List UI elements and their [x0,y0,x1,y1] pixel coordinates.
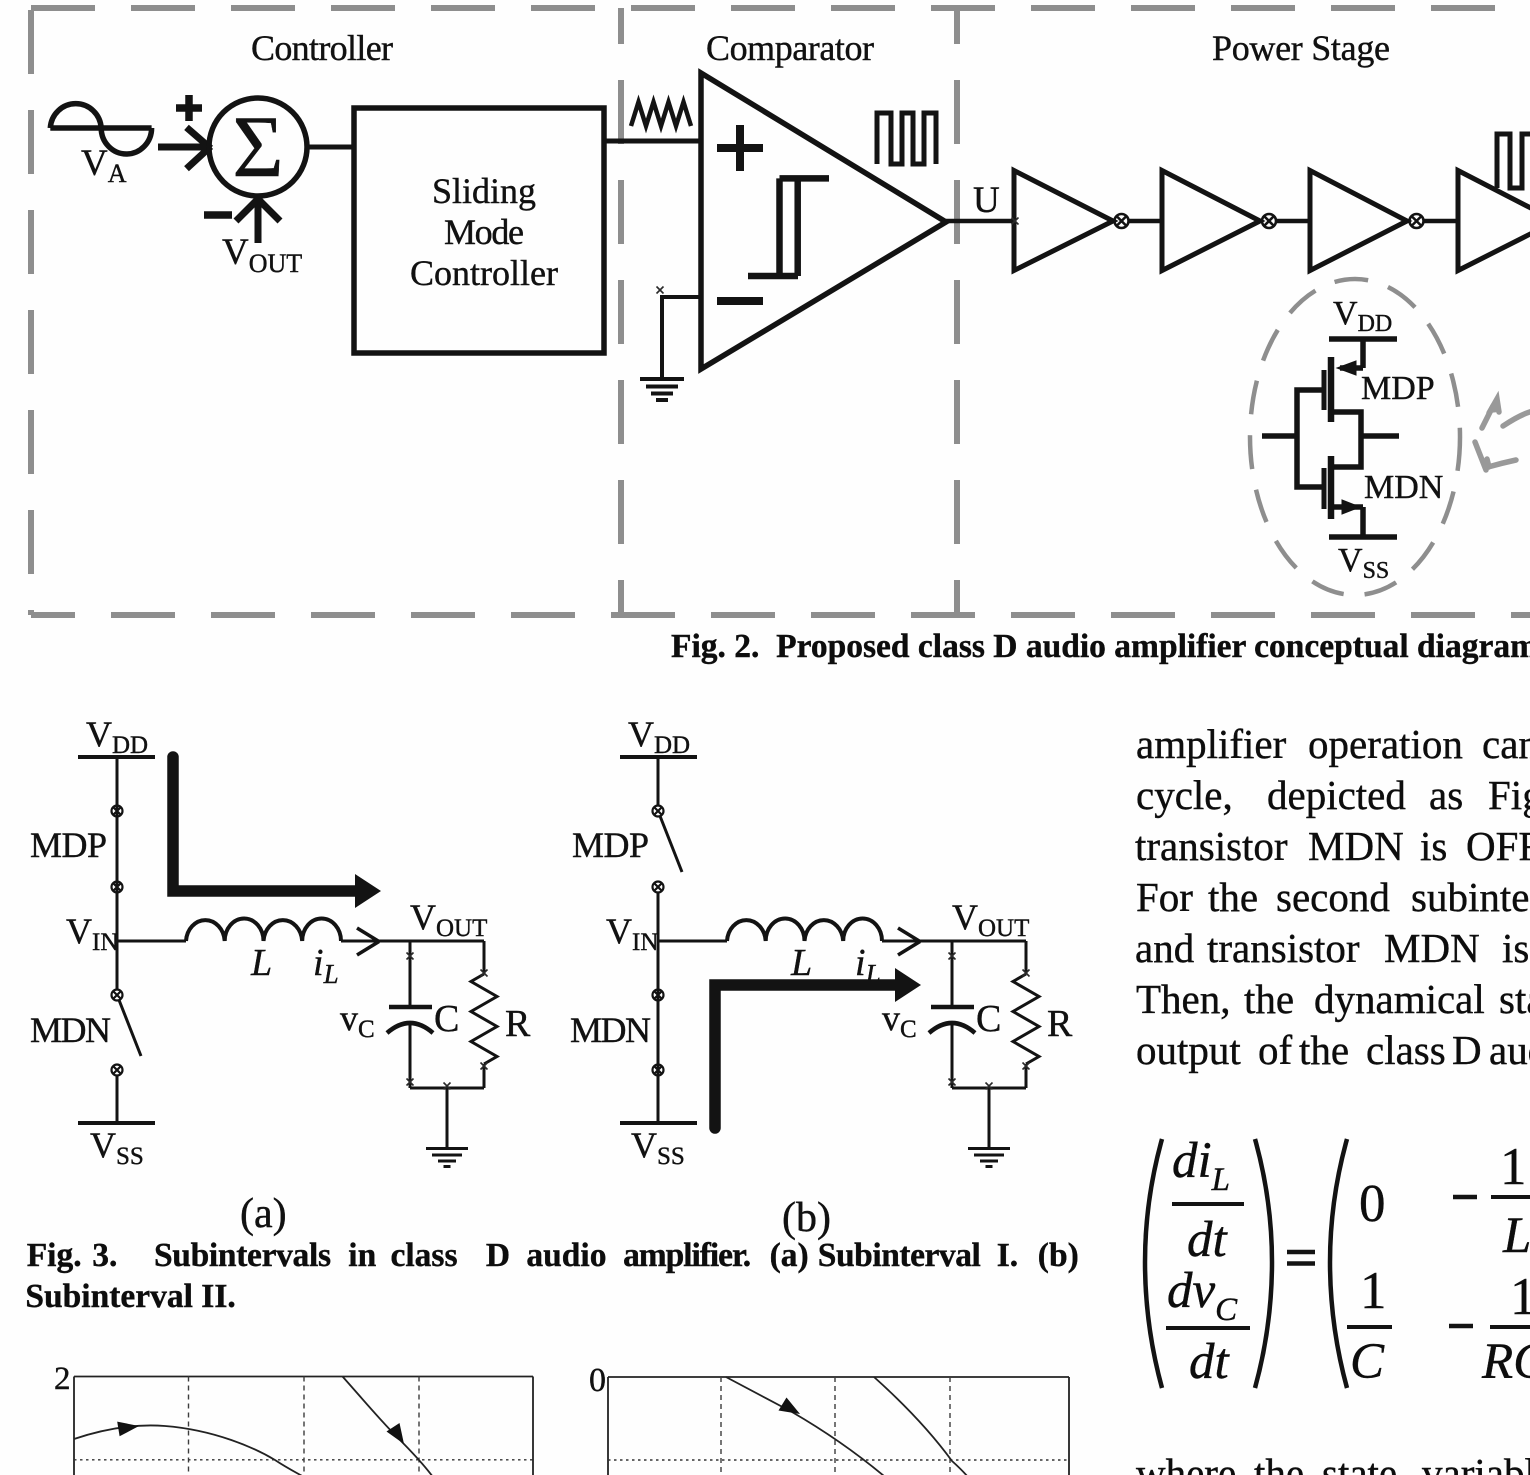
comparator U2 triangle [701,73,946,369]
right plot frame [608,1377,1069,1475]
fraction bar 3 [1347,1325,1392,1329]
svg-text:MDN: MDN [1364,469,1443,506]
square wave icon at comparator output [877,113,936,164]
sawtooth waveform icon [631,102,691,126]
MDP source arrow [1337,361,1356,375]
trajectory 1 arrowhead [117,1422,139,1437]
wire summer to controller box [307,145,354,150]
capacitor plate a [389,1005,432,1010]
thick arrowhead a [355,874,381,908]
big right paren 1 [1255,1139,1272,1388]
left plot trajectory 1 [74,1425,304,1475]
VSS rail inset [1329,534,1397,540]
svg-text:1: 1 [1500,1138,1527,1196]
buffer U6 partially cut [1458,171,1530,271]
capacitor curved plate b [929,1023,975,1033]
svg-text:(a): (a) [240,1191,287,1237]
capacitor to bottom b [951,1022,954,1088]
svg-text:Subinterval II.: Subinterval II. [25,1278,235,1315]
bottom wire a [410,1087,484,1090]
switch MDN open a [112,990,123,1076]
wire inductor to node b [882,940,1026,943]
big left paren 2 [1330,1139,1347,1388]
wire to buffer U4 [1129,219,1163,224]
MDN open blade a [119,1000,141,1056]
VDD rail b [620,755,697,759]
svg-text:andtransistorMDNis: andtransistorMDNis [1135,925,1529,971]
capacitor to bottom a [409,1022,412,1088]
wire minus input to ground [662,297,701,378]
svg-text:Fig.3.SubintervalsinclassDaudi: Fig.3.SubintervalsinclassDaudioamplifier… [27,1237,1079,1274]
svg-text:Mode: Mode [444,212,524,252]
VDD rail inset [1329,336,1397,342]
MDN source arrow [1342,500,1360,514]
right plot trajectory 2 [874,1377,968,1475]
minus sign 1 [1453,1195,1477,1200]
VSS rail a [78,1121,155,1125]
switch MDP closed circles a [112,806,123,893]
wire VIN to inductor b [658,940,727,943]
svg-text:Controller: Controller [410,253,558,293]
switch MDP open b [653,806,664,893]
ground a [426,1088,468,1167]
big left paren 1 [1145,1139,1162,1388]
svg-text:transistorMDNisOFF: transistorMDNisOFF [1135,823,1530,869]
inductor L a [186,919,341,941]
node circle 2 [1262,214,1276,228]
svg-text:L: L [790,942,812,984]
ground under comparator [640,379,684,400]
fraction bar 1 [1172,1202,1244,1206]
svg-text:R: R [505,1003,531,1045]
grey callout arrow [1475,399,1530,470]
svg-text:0: 0 [589,1362,606,1399]
left plot dotted threshold [74,1459,533,1461]
minus sign 2 [1449,1324,1473,1329]
thick current arrow a [173,757,357,891]
svg-text:U: U [973,180,1000,221]
left plot grid [189,1377,420,1475]
buffer U5 [1310,171,1407,271]
svg-text:Σ: Σ [232,99,283,196]
wire VIN to inductor a [117,940,186,943]
small current arrow a [357,928,379,955]
right trajectory 1 arrowhead [779,1398,801,1415]
dashed frame top border [31,5,1530,11]
left plot frame [74,1377,533,1475]
wire MDN closed b [657,941,660,1123]
node circle 3 [1410,214,1424,228]
dashed frame bottom border [31,612,1530,618]
wire input arrow to summer [158,127,211,168]
svg-text:dt: dt [1189,1334,1231,1390]
summer U-sum circle [209,98,307,196]
ground b [968,1088,1010,1167]
resistor R b [1013,941,1039,1088]
right plot trajectory 1 [726,1377,884,1475]
comparator minus input [717,297,763,305]
dashed ellipse around output stage detail [1250,279,1460,595]
buffer U4 [1162,171,1260,271]
bottom wire b [952,1087,1026,1090]
svg-text:Comparator: Comparator [706,28,874,68]
feedback arrow VOUT into summer [236,198,280,244]
capacitor C branch a [409,941,412,1007]
right plot dotted threshold [608,1459,1069,1461]
svg-text:Controller: Controller [251,28,393,68]
sliding mode controller box [354,108,604,353]
MDP open blade b [660,816,682,872]
transistor MDN [1324,437,1363,537]
minus sign of summer feedback [204,211,232,219]
VDD rail a [78,755,155,759]
svg-text:2: 2 [54,1361,71,1397]
fraction bar 4 [1491,1195,1530,1199]
dashed frame left border [28,10,34,615]
left plot trajectory 2 [343,1377,434,1475]
wire switch to VIN node b [657,892,660,941]
switch MDN closed b [653,990,664,1076]
svg-text:MDP: MDP [30,825,107,865]
wire comparator to buffer chain [946,219,1014,224]
sine source VA [50,104,151,154]
wire VDD to VIN node a [116,757,119,941]
thick arrowhead b [895,968,921,1002]
svg-text:C: C [434,998,459,1040]
equals sign [1287,1252,1315,1264]
svg-text:MDN: MDN [570,1010,651,1050]
transistor MDP [1324,339,1363,437]
wire inductor to node a [341,940,484,943]
wire to buffer U5 [1276,219,1310,224]
square wave icon top right [1497,134,1530,188]
svg-text:Then,thedynamicalstate: Then,thedynamicalstate [1136,976,1530,1022]
svg-text:1: 1 [1510,1268,1530,1326]
resistor R a [471,941,497,1088]
svg-text:wherethestatevariable: wherethestatevariable [1136,1450,1530,1475]
svg-text:Power Stage: Power Stage [1212,28,1390,68]
capacitor plate b [931,1005,974,1010]
comparator plus input [717,125,763,171]
svg-text:MDP: MDP [572,825,649,865]
label Sliding Mode Controller [410,171,558,293]
fraction bar 2 [1166,1326,1250,1330]
svg-text:Fig. 2. Proposed class D audi: Fig. 2. Proposed class D audio amplifier… [671,628,1530,665]
dashed divider comparator/power-stage [954,8,960,615]
capacitor C branch b [951,941,954,1007]
wire box to comparator [604,139,701,144]
wire VIN to MDN switch a [116,941,119,989]
svg-text:MDN: MDN [30,1010,111,1050]
svg-text:L: L [250,942,272,984]
node circle 1 [1115,214,1129,228]
svg-text:Sliding: Sliding [432,171,536,211]
inductor L b [727,919,882,941]
gate tie bar [1262,390,1399,487]
svg-text:outputoftheclassDaudio: outputoftheclassDaudio [1136,1027,1530,1073]
svg-text:L: L [1502,1208,1530,1264]
svg-text:R: R [1047,1003,1073,1045]
junction markers [407,218,1030,1090]
fraction bar 5 [1490,1325,1530,1329]
svg-text:dt: dt [1187,1212,1229,1268]
trajectory 2 arrowhead [387,1423,405,1444]
wire VDD to switch b [657,757,660,806]
wire to buffer U6 [1424,219,1459,224]
capacitor curved plate a [387,1023,433,1033]
svg-text:RC: RC [1481,1334,1530,1390]
right plot grid [721,1377,950,1475]
buffer U3 [1014,171,1113,271]
svg-text:C: C [1350,1334,1385,1390]
plus sign of summer input [176,95,202,121]
comparator hysteresis symbol [748,178,829,276]
svg-text:MDP: MDP [1361,370,1435,407]
VSS rail b [620,1121,697,1125]
svg-text:(b): (b) [782,1195,831,1241]
thick current arrow b [715,985,897,1128]
dashed divider controller/comparator [618,8,624,615]
wire MDN to VSS a [116,1075,119,1123]
small current arrow b [898,928,920,955]
svg-text:C: C [976,998,1001,1040]
svg-text:1: 1 [1360,1262,1387,1320]
svg-text:0: 0 [1359,1175,1386,1233]
